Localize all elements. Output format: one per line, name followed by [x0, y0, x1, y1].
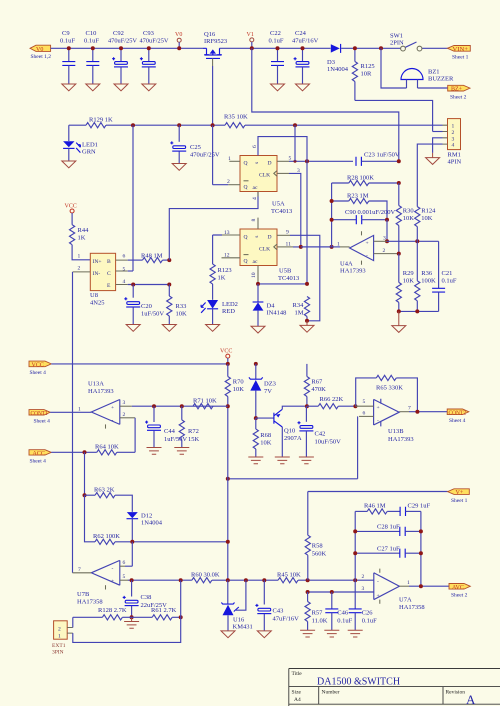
- svg-text:470uF/25V: 470uF/25V: [108, 38, 137, 45]
- resistor R65 feedback: [356, 375, 418, 411]
- U13B pin6 net: [358, 410, 374, 479]
- svg-text:C22: C22: [270, 30, 281, 37]
- wire feedback left vertical: [331, 183, 333, 247]
- junction: [306, 578, 310, 582]
- svg-text:LED1: LED1: [82, 142, 98, 149]
- sheet entry BZ+: [448, 85, 470, 100]
- junction: [330, 245, 334, 249]
- svg-text:15K: 15K: [188, 436, 200, 443]
- resistor R125: [352, 48, 374, 100]
- diode D4: [253, 284, 287, 326]
- svg-text:s: s: [254, 236, 260, 238]
- capacitor C43: [255, 580, 299, 631]
- svg-text:GRN: GRN: [82, 149, 96, 156]
- junction: [130, 615, 134, 619]
- svg-text:R125: R125: [361, 63, 375, 70]
- resistor R60: [191, 571, 220, 583]
- svg-text:C23 1uF/50V: C23 1uF/50V: [364, 151, 400, 158]
- svg-text:DA1500 &SWITCH: DA1500 &SWITCH: [317, 677, 400, 688]
- svg-text:R68: R68: [260, 432, 271, 439]
- svg-text:R44: R44: [78, 227, 90, 234]
- ground: [62, 161, 76, 168]
- junction: [226, 404, 230, 408]
- op-amp U4A: [340, 231, 374, 274]
- resistor R66: [307, 396, 356, 409]
- capacitor C93: [140, 30, 169, 84]
- ground: [257, 631, 271, 638]
- svg-text:R35 10K: R35 10K: [224, 114, 248, 121]
- svg-text:11.0K: 11.0K: [312, 618, 328, 625]
- svg-text:1: 1: [407, 580, 410, 586]
- ground: [300, 321, 314, 332]
- junction: [167, 258, 171, 262]
- ground: [275, 457, 290, 464]
- U5A pin3 CLK net: [277, 173, 301, 246]
- svg-text:R72: R72: [188, 428, 199, 435]
- svg-text:9: 9: [286, 229, 289, 235]
- resistor R33: [167, 285, 187, 325]
- svg-text:47uF/16V: 47uF/16V: [273, 616, 300, 623]
- svg-text:D12: D12: [141, 513, 152, 520]
- svg-text:VIN+: VIN+: [453, 47, 469, 53]
- wire C-pin to riser: [128, 270, 133, 272]
- svg-text:-: -: [377, 418, 379, 424]
- svg-text:0.1uF: 0.1uF: [362, 618, 377, 625]
- connector EXT1: [52, 621, 73, 656]
- junction: [385, 218, 389, 222]
- svg-text:1: 1: [78, 254, 81, 260]
- wire RM1 pin4 to R124: [417, 144, 442, 207]
- junction: [305, 319, 309, 323]
- svg-text:VCC: VCC: [220, 349, 232, 355]
- svg-text:6: 6: [363, 410, 366, 416]
- svg-text:HA17393: HA17393: [340, 268, 366, 275]
- svg-text:+: +: [377, 405, 380, 411]
- svg-text:R58: R58: [312, 543, 323, 550]
- U13A pin3 net: [120, 400, 228, 406]
- resistor R35: [224, 114, 248, 128]
- svg-text:0.1uF: 0.1uF: [269, 38, 284, 45]
- ground: [114, 84, 128, 91]
- ground: [426, 153, 440, 165]
- svg-text:C25: C25: [190, 144, 201, 151]
- junction: [226, 477, 230, 481]
- svg-text:TC4013: TC4013: [271, 208, 292, 215]
- junction: [167, 283, 171, 287]
- svg-text:47uF/16V: 47uF/16V: [292, 38, 319, 45]
- wire R48/E riser to U5A pin4 net: [169, 192, 258, 261]
- svg-text:R123: R123: [218, 267, 232, 274]
- svg-text:5: 5: [289, 155, 292, 161]
- capacitor C24: [292, 30, 319, 84]
- svg-text:IRF9523: IRF9523: [204, 38, 227, 45]
- svg-text:R61 2.7K: R61 2.7K: [151, 607, 177, 614]
- capacitor C22: [269, 30, 285, 84]
- svg-text:10uF/50V: 10uF/50V: [315, 439, 342, 446]
- U5A pin1 stub: [229, 160, 240, 162]
- svg-text:560K: 560K: [312, 551, 327, 558]
- diode D3: [327, 44, 349, 73]
- capacitor C23: [356, 151, 400, 166]
- wire top rail right of D3: [341, 47, 400, 49]
- resistor R58: [305, 492, 326, 581]
- svg-text:Q: Q: [244, 161, 248, 167]
- LED LED1: [63, 125, 98, 161]
- svg-text:C26: C26: [362, 610, 374, 617]
- svg-text:U4A: U4A: [340, 261, 353, 268]
- U5A pin4 riser: [257, 192, 259, 197]
- svg-text:A4: A4: [294, 697, 301, 703]
- U13B pin5 lead: [355, 399, 373, 406]
- junction: [211, 123, 215, 127]
- resistor R128: [73, 607, 132, 620]
- svg-text:AVC: AVC: [452, 585, 464, 591]
- svg-text:U13B: U13B: [388, 428, 404, 435]
- svg-text:+: +: [377, 593, 380, 599]
- svg-text:R57: R57: [312, 610, 324, 617]
- svg-text:1: 1: [58, 633, 61, 639]
- svg-text:CONT2: CONT2: [449, 410, 467, 416]
- svg-text:EXT1: EXT1: [52, 643, 66, 649]
- junction: [67, 46, 71, 50]
- transistor Q10: [256, 406, 307, 457]
- wire CONT1 to U13A output: [50, 411, 91, 413]
- ground: [124, 617, 139, 628]
- U7A output net: [399, 580, 449, 586]
- optocoupler U8: [78, 253, 128, 306]
- svg-text:R36: R36: [421, 270, 433, 277]
- junction: [353, 578, 357, 582]
- svg-text:6: 6: [252, 145, 258, 148]
- svg-text:BUZZER: BUZZER: [428, 76, 454, 83]
- junction: [91, 46, 95, 50]
- wire gnd rail under R29/R36/C21: [399, 310, 439, 312]
- capacitor C29: [400, 503, 430, 517]
- U4A pin3 lead: [374, 235, 387, 241]
- capacitor C38: [123, 580, 167, 617]
- power VCC mid: [220, 349, 232, 364]
- svg-text:3: 3: [383, 235, 386, 241]
- junction: [330, 218, 334, 222]
- svg-text:C93: C93: [143, 30, 154, 37]
- svg-text:4: 4: [252, 197, 258, 200]
- svg-text:0.1uF: 0.1uF: [337, 618, 352, 625]
- junction: [152, 404, 156, 408]
- svg-text:4PIN: 4PIN: [448, 159, 462, 166]
- svg-text:Q: Q: [244, 234, 248, 240]
- capacitor C42: [298, 406, 342, 457]
- svg-text:Number: Number: [322, 690, 340, 696]
- svg-text:C42: C42: [315, 431, 326, 438]
- ground: [162, 325, 176, 332]
- svg-text:3: 3: [362, 586, 365, 592]
- wire RM1 pin3 to ground: [433, 138, 443, 153]
- U5A pin2 wire: [213, 125, 240, 185]
- wire switch to VIN+: [422, 47, 448, 49]
- svg-text:100K: 100K: [421, 278, 436, 285]
- svg-text:SW1: SW1: [390, 33, 403, 40]
- svg-text:3: 3: [123, 400, 126, 406]
- svg-text:C24: C24: [295, 30, 307, 37]
- flip-flop U5A: [240, 156, 292, 216]
- wire D riser to R35 net: [294, 125, 296, 161]
- junction: [301, 46, 305, 50]
- svg-text:IN-: IN-: [93, 271, 101, 277]
- svg-text:HA17393: HA17393: [88, 388, 114, 395]
- resistor R64: [51, 444, 135, 455]
- U5B pin8 stub: [257, 218, 259, 229]
- wire KA431 ref tap: [236, 580, 246, 610]
- ground: [296, 84, 310, 91]
- svg-text:C: C: [107, 271, 111, 277]
- wire ACC branch to R62: [85, 495, 96, 542]
- svg-text:D: D: [268, 234, 272, 240]
- junction: [293, 123, 297, 127]
- svg-text:C21: C21: [442, 270, 453, 277]
- resistor R29: [396, 254, 414, 312]
- sheet entry AVC: [449, 584, 470, 599]
- LED LED2: [201, 300, 238, 325]
- resistor R129: [86, 117, 113, 128]
- ground: [172, 164, 186, 171]
- wire R125 to RM1 pin2: [355, 100, 433, 131]
- connector RM1: [443, 119, 462, 166]
- junction: [294, 160, 297, 163]
- svg-text:ac: ac: [253, 259, 258, 265]
- svg-text:Title: Title: [292, 671, 303, 677]
- svg-text:R45 10K: R45 10K: [277, 571, 301, 578]
- resistor R57: [305, 592, 328, 630]
- svg-text:470uF/25V: 470uF/25V: [140, 38, 169, 45]
- U5A pin numbers: [227, 145, 300, 200]
- svg-text:-: -: [112, 566, 114, 572]
- junction: [415, 239, 419, 243]
- wire mid vertical R70 to bottom: [227, 406, 229, 580]
- svg-text:C29 1uF: C29 1uF: [408, 503, 431, 510]
- svg-text:HA17358: HA17358: [77, 599, 103, 606]
- svg-text:-: -: [366, 253, 368, 259]
- capacitor C9: [60, 30, 75, 84]
- junction: [119, 46, 123, 50]
- U5A pin6 S net: [258, 137, 307, 162]
- svg-text:2: 2: [58, 626, 61, 632]
- resistor R70: [225, 364, 244, 406]
- svg-text:TC4013: TC4013: [278, 275, 299, 282]
- svg-text:HA17393: HA17393: [388, 436, 414, 443]
- svg-text:IN+: IN+: [93, 259, 102, 265]
- svg-text:Sheet 2: Sheet 2: [451, 593, 468, 599]
- svg-text:1uF/50V: 1uF/50V: [141, 311, 164, 318]
- capacitor C21: [432, 241, 457, 311]
- junction: [250, 46, 254, 50]
- zener DZ3: [249, 364, 276, 418]
- svg-text:U16: U16: [233, 617, 245, 624]
- resistor R71: [193, 398, 217, 409]
- ground: [147, 448, 162, 455]
- svg-text:10: 10: [251, 272, 257, 278]
- svg-text:Q10: Q10: [284, 428, 295, 435]
- capacitor C28: [355, 524, 421, 536]
- svg-text:10K: 10K: [421, 215, 433, 222]
- svg-text:10K: 10K: [260, 440, 272, 447]
- svg-text:2PIN: 2PIN: [390, 40, 404, 47]
- U13A pin2 net: [120, 412, 135, 453]
- svg-text:+: +: [366, 241, 369, 247]
- svg-text:1: 1: [337, 241, 340, 247]
- wire feedback left vertical: [354, 511, 356, 580]
- junction: [330, 590, 334, 594]
- svg-text:6: 6: [123, 560, 126, 566]
- title block frame: [289, 669, 500, 706]
- svg-text:2: 2: [383, 248, 386, 254]
- svg-text:R34: R34: [293, 302, 305, 309]
- svg-text:C9: C9: [62, 30, 70, 37]
- svg-text:5: 5: [363, 399, 366, 405]
- wire top rail left: [51, 47, 203, 49]
- junction: [226, 540, 230, 544]
- svg-text:BZ1: BZ1: [428, 69, 440, 76]
- svg-text:V0: V0: [36, 47, 43, 53]
- resistor R63: [85, 487, 133, 512]
- svg-text:VCC: VCC: [65, 204, 77, 210]
- wire V+ row: [308, 491, 448, 493]
- junction: [305, 282, 309, 286]
- ground: [248, 457, 263, 464]
- U7B pin6 net: [120, 542, 133, 566]
- svg-text:ac: ac: [253, 185, 258, 191]
- svg-text:R128 2.7K: R128 2.7K: [98, 607, 127, 614]
- U5B pin numbers: [224, 219, 291, 279]
- svg-text:U8: U8: [90, 292, 98, 299]
- ground: [126, 325, 140, 332]
- svg-text:Q16: Q16: [204, 31, 216, 38]
- wire main net y125: [69, 124, 443, 126]
- resistor R62: [93, 533, 228, 545]
- shunt reference U16 KM431: [221, 580, 252, 631]
- svg-text:U5A: U5A: [272, 201, 285, 208]
- ground: [221, 631, 235, 638]
- ground: [392, 311, 406, 332]
- wire EXT1 pin1 to pin5 riser: [73, 580, 181, 642]
- svg-text:-: -: [377, 579, 379, 585]
- wire U8 pin2 long riser to U7B: [73, 271, 91, 273]
- svg-text:10K: 10K: [233, 386, 245, 393]
- svg-text:HA17358: HA17358: [399, 604, 425, 611]
- sheet entry V0: [30, 45, 51, 60]
- ground: [300, 630, 315, 637]
- junction: [179, 578, 183, 582]
- svg-text:Sheet 4: Sheet 4: [30, 370, 47, 376]
- junction: [276, 46, 280, 50]
- svg-text:BZ+: BZ+: [451, 87, 463, 93]
- svg-text:C92: C92: [113, 30, 124, 37]
- svg-text:+: +: [111, 405, 114, 411]
- junction: [147, 46, 151, 50]
- svg-text:1M: 1M: [295, 310, 304, 317]
- junction: [419, 529, 423, 533]
- svg-text:1K: 1K: [78, 235, 86, 242]
- junction: [262, 578, 266, 582]
- junction: [415, 410, 419, 414]
- wire U8 C-pin riser: [132, 125, 134, 271]
- resistor R28: [332, 175, 399, 186]
- ground: [86, 84, 100, 91]
- op-amp U7A: [374, 569, 425, 611]
- svg-text:7: 7: [408, 405, 411, 411]
- sheet entry VCC: [29, 361, 51, 376]
- junction: [353, 551, 357, 555]
- resistor R44: [70, 225, 91, 260]
- sheet entry ACC: [29, 450, 51, 465]
- junction: [131, 123, 135, 127]
- U5B pin13 net to R123: [213, 235, 240, 264]
- junction: [254, 416, 258, 420]
- wire RM1 pin2 lead: [433, 131, 443, 133]
- svg-text:Sheet 4: Sheet 4: [30, 459, 47, 465]
- svg-text:2: 2: [362, 574, 365, 580]
- ground: [174, 448, 189, 455]
- wire U13B pin6 row to KA431 node: [228, 478, 358, 480]
- svg-text:D4: D4: [267, 303, 276, 310]
- wire feedback right vertical: [420, 511, 422, 586]
- capacitor C10: [84, 30, 99, 84]
- junction: [130, 540, 134, 544]
- capacitor C27: [355, 545, 421, 557]
- junction: [353, 46, 357, 50]
- svg-text:E: E: [107, 283, 111, 289]
- svg-text:Revision: Revision: [446, 690, 466, 696]
- node V1: [247, 32, 254, 48]
- wire ACC branch down: [84, 452, 86, 495]
- svg-text:3: 3: [452, 136, 455, 142]
- svg-text:8: 8: [251, 219, 257, 222]
- svg-text:R70: R70: [233, 379, 244, 386]
- wire S/D vertical down: [306, 161, 308, 284]
- svg-text:1: 1: [452, 124, 455, 130]
- svg-text:Q: Q: [244, 258, 248, 264]
- sheet entry CONT2: [447, 409, 469, 424]
- junction: [330, 199, 334, 203]
- junction: [177, 46, 181, 50]
- junction: [397, 159, 401, 163]
- U7B pin5 long row: [120, 574, 374, 580]
- junction: [306, 590, 310, 594]
- svg-text:-: -: [112, 418, 114, 424]
- title block text: [292, 671, 477, 706]
- svg-text:D3: D3: [327, 59, 335, 66]
- resistor R45: [277, 571, 301, 583]
- svg-text:10R: 10R: [361, 71, 373, 78]
- capacitor C25: [170, 125, 220, 163]
- junction: [379, 46, 383, 50]
- svg-text:4N25: 4N25: [90, 300, 104, 307]
- svg-text:CONT1: CONT1: [31, 411, 49, 417]
- ground: [324, 630, 339, 637]
- resistor R48: [128, 252, 170, 262]
- switch SW1: [390, 33, 422, 51]
- svg-text:B: B: [107, 259, 111, 265]
- sheet entry CONT1: [29, 410, 50, 425]
- svg-text:R67: R67: [311, 379, 323, 386]
- power VCC: [65, 204, 77, 225]
- junction: [419, 551, 423, 555]
- U7B output lead: [73, 572, 92, 574]
- svg-text:Sheet 2: Sheet 2: [450, 94, 467, 100]
- svg-text:RED: RED: [222, 308, 235, 315]
- svg-text:1K: 1K: [218, 275, 226, 282]
- svg-text:5: 5: [123, 574, 126, 580]
- svg-text:C43: C43: [273, 608, 284, 615]
